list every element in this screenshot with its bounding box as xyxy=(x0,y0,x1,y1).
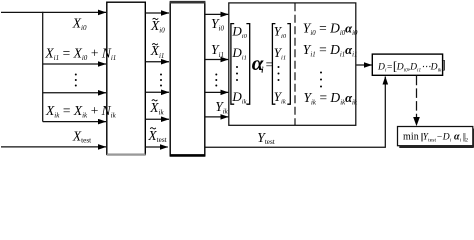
svg-text:Yi0: Yi0 xyxy=(211,16,224,33)
svg-text:Xtest: Xtest xyxy=(147,128,166,144)
svg-text:Xi1 = Xi0 + Ni1: Xi1 = Xi0 + Ni1 xyxy=(44,45,116,62)
svg-text:Yi1: Yi1 xyxy=(211,42,224,59)
svg-text:Xi0: Xi0 xyxy=(72,15,87,32)
svg-text:Xi1: Xi1 xyxy=(150,43,165,60)
svg-text:Xik = Xik + Nik: Xik = Xik + Nik xyxy=(45,103,117,120)
svg-text:Yik: Yik xyxy=(215,99,228,116)
svg-text:=: = xyxy=(265,57,274,72)
svg-text:min || Ytest−Di αi ||2: min || Ytest−Di αi ||2 xyxy=(403,132,468,144)
svg-text:Ytest: Ytest xyxy=(257,130,275,146)
svg-text:Xik: Xik xyxy=(149,100,164,117)
svg-text:Xtest: Xtest xyxy=(72,129,91,145)
svg-text:Xi0: Xi0 xyxy=(150,18,165,35)
